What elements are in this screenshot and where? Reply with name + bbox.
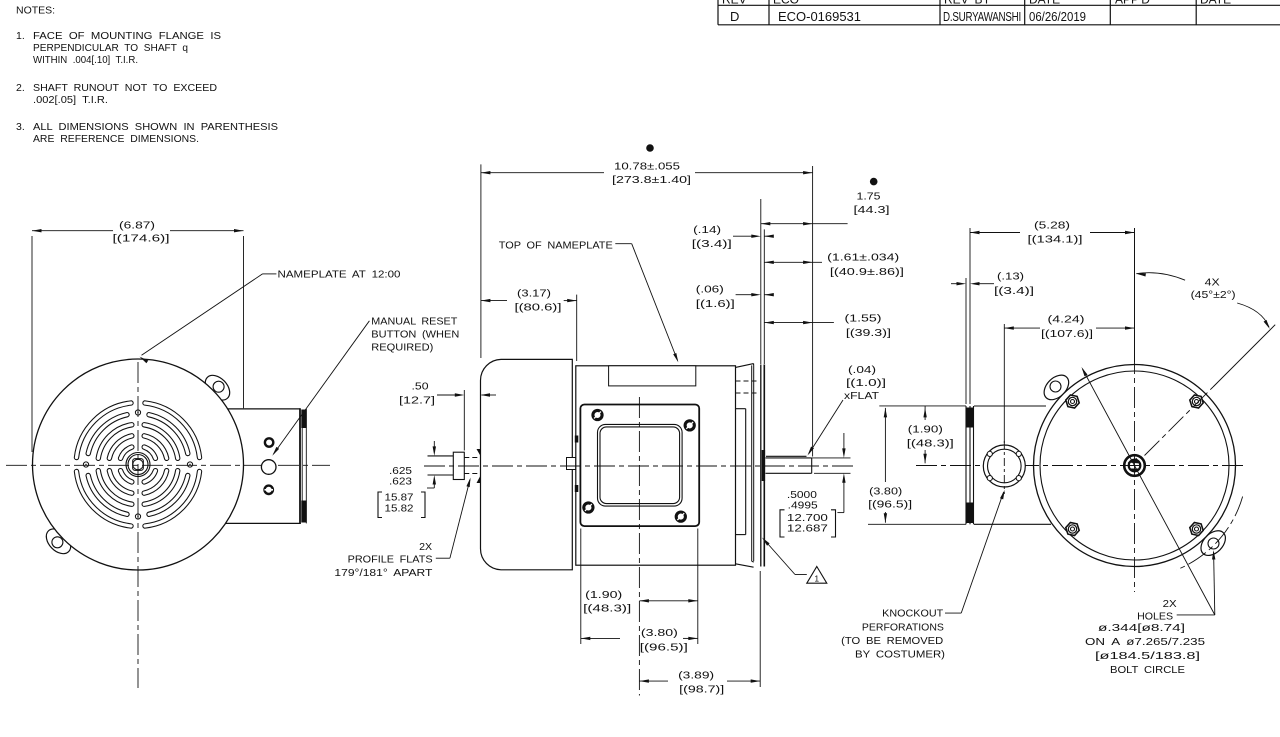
right view: conduit box top/bottom lines: [974, 405, 1046, 407]
svg-text:(1.61±.034): (1.61±.034): [827, 252, 899, 264]
dimension .5000/.4995 [12.700/12.687]: [780, 433, 851, 537]
svg-text:SHAFT RUNOUT NOT TO EXCEED: SHAFT RUNOUT NOT TO EXCEED: [33, 82, 217, 94]
middle view: flange bell profile: [736, 364, 760, 568]
leader: TOP OF NAMEPLATE: [499, 239, 679, 362]
svg-text:TOP OF NAMEPLATE: TOP OF NAMEPLATE: [499, 239, 613, 251]
middle view: box cover screws: [593, 410, 602, 419]
svg-text:[(174.6)]: [(174.6)]: [113, 233, 170, 245]
svg-text:[12.7]: [12.7]: [399, 395, 435, 407]
right view: flange outer circle: [1034, 365, 1236, 567]
right view: hex bolts 4X: [1066, 395, 1079, 408]
svg-text:PERFORATIONS: PERFORATIONS: [862, 622, 944, 634]
leader: (.04) [(1.0)] x FLAT: [808, 364, 887, 456]
svg-text:(1.55): (1.55): [845, 313, 882, 325]
svg-text:(4.24): (4.24): [1048, 314, 1085, 326]
svg-text:BOLT CIRCLE: BOLT CIRCLE: [1110, 664, 1185, 676]
svg-text:[(3.4)]: [(3.4)]: [692, 238, 732, 250]
left view: center hub and shaft: [126, 453, 150, 477]
svg-text:(3.80): (3.80): [869, 486, 902, 498]
svg-text:12.687: 12.687: [787, 522, 828, 534]
left view: slotted screw below button: [265, 486, 273, 494]
right view: 45 deg centerline ray: [1145, 387, 1214, 456]
svg-text:[273.8±1.40]: [273.8±1.40]: [612, 174, 691, 186]
middle view: motor body: [576, 366, 736, 565]
svg-text:[(48.3)]: [(48.3)]: [907, 438, 954, 450]
right view: centerline horizontal: [916, 465, 1247, 467]
svg-text:ECO-0169531: ECO-0169531: [778, 9, 861, 24]
svg-text:[(134.1)]: [(134.1)]: [1028, 234, 1083, 246]
svg-text:HOLES: HOLES: [1137, 611, 1173, 623]
left view: motor circle (fan cover): [33, 359, 244, 570]
left view: mounting ear bottom-left: [42, 524, 76, 558]
svg-text:(45°±2°): (45°±2°): [1191, 289, 1236, 301]
svg-text:[(39.3)]: [(39.3)]: [846, 327, 891, 339]
right view: ear hole bottom-right: [1208, 538, 1219, 549]
svg-text:(.14): (.14): [693, 224, 721, 236]
left view: conduit box right side: [300, 408, 307, 524]
left view: fan grille arc slots: [77, 403, 200, 526]
svg-text:NAMEPLATE AT 12:00: NAMEPLATE AT 12:00: [278, 268, 401, 280]
dimension 1.75 [44.3]: [761, 178, 890, 364]
svg-text:D: D: [730, 9, 739, 24]
leader: 2X PROFILE FLATS 179/181 APART: [334, 478, 470, 579]
svg-text:[(1.6)]: [(1.6)]: [696, 298, 735, 310]
right view dimension (3.80) [(96.5)] vertical: [868, 408, 966, 524]
right view: mounting ear top-left: [1039, 370, 1073, 404]
svg-text:BY COSTUMER): BY COSTUMER): [855, 649, 945, 661]
svg-text:2X: 2X: [1163, 598, 1177, 610]
svg-text:[(1.0)]: [(1.0)]: [846, 377, 886, 389]
middle view: box vertical centerline: [638, 397, 640, 696]
svg-text:1.75: 1.75: [857, 191, 881, 203]
svg-text:FACE OF MOUNTING FLANGE IS: FACE OF MOUNTING FLANGE IS: [33, 30, 221, 42]
svg-text:(3.80): (3.80): [641, 627, 678, 639]
right view: flange inner circle: [1040, 371, 1229, 560]
right view: bolt circle centerline arc: [1177, 497, 1243, 570]
svg-text:BUTTON (WHEN: BUTTON (WHEN: [371, 329, 459, 341]
middle view: horizontal centerline: [424, 465, 856, 467]
right view: centerline vertical: [1134, 228, 1136, 353]
svg-text:KNOCKOUT: KNOCKOUT: [882, 608, 944, 620]
svg-text:xFLAT: xFLAT: [844, 390, 880, 402]
left view: conduit box behind circle: [222, 409, 300, 524]
right view: knockout circle: [983, 441, 1025, 494]
right view dimension (1.90) [(48.3)] vertical: [879, 406, 966, 463]
svg-text:[(107.6)]: [(107.6)]: [1041, 328, 1093, 340]
leader: MANUAL RESET BUTTON (WHEN REQUIRED): [272, 316, 459, 456]
svg-text:15.82: 15.82: [385, 503, 414, 515]
leader: 2X HOLES with both hole leaders: [1082, 367, 1216, 623]
left view: centerline vertical: [137, 362, 139, 688]
notes text block: [16, 5, 278, 146]
left view: mounting ear top-right: [201, 371, 235, 405]
dimension (3.17) [(80.6)]: [481, 288, 577, 362]
svg-text:(3.17): (3.17): [517, 288, 551, 300]
svg-text:(TO BE REMOVED: (TO BE REMOVED: [841, 635, 943, 647]
left view: pilot light hole: [265, 438, 273, 446]
middle view: left shaft with profile flats: [428, 449, 481, 483]
leader: NAMEPLATE AT 12:00: [140, 268, 401, 363]
middle view: terminal box cover: [580, 405, 699, 527]
right view: mounting ear bottom-right: [1196, 526, 1230, 560]
svg-text:ARE REFERENCE DIMENSIONS.: ARE REFERENCE DIMENSIONS.: [33, 133, 199, 145]
left view: grille screws N E S W: [135, 410, 140, 415]
svg-text:179°/181° APART: 179°/181° APART: [334, 567, 433, 579]
svg-text:D.SURYAWANSHI: D.SURYAWANSHI: [943, 9, 1021, 24]
leader: KNOCKOUT PERFORATIONS text: [841, 490, 1004, 661]
svg-text:WITHIN .004[.10] T.I.R.: WITHIN .004[.10] T.I.R.: [33, 54, 138, 66]
svg-text:[ø184.5/183.8]: [ø184.5/183.8]: [1095, 650, 1200, 662]
dimension (3.89) [(98.7)] bottom: [639, 571, 760, 696]
svg-text:2X: 2X: [419, 541, 432, 553]
left view: manual reset button: [261, 460, 276, 475]
dimension (1.90) [(48.3)] bottom: [581, 529, 698, 645]
right view: center shaft hub: [1124, 455, 1145, 476]
svg-text:2.: 2.: [16, 82, 25, 94]
svg-text:[44.3]: [44.3]: [854, 204, 890, 216]
svg-text:PERPENDICULAR TO SHAFT q: PERPENDICULAR TO SHAFT q: [33, 42, 188, 54]
svg-text:MANUAL RESET: MANUAL RESET: [371, 316, 458, 328]
right view: ear hole top-left: [1050, 381, 1061, 392]
svg-text:.4995: .4995: [788, 500, 818, 512]
right view dimension 4X (45±2) angle: [1136, 273, 1270, 329]
dimension .50 [12.7]: [399, 381, 496, 451]
middle view: right shaft with flat: [766, 456, 812, 473]
svg-text:REQUIRED): REQUIRED): [371, 342, 433, 354]
svg-text:(6.87): (6.87): [119, 219, 155, 231]
svg-text:(3.89): (3.89): [678, 670, 714, 682]
dimension (1.61±.034) [(40.9±.86)]: [764, 252, 904, 278]
svg-text:PROFILE FLATS: PROFILE FLATS: [348, 553, 433, 565]
right view dimension (4.24) [(107.6)]: [1004, 314, 1134, 444]
svg-text:1.: 1.: [16, 30, 25, 42]
svg-text:06/26/2019: 06/26/2019: [1029, 9, 1086, 24]
svg-text:.623: .623: [389, 476, 412, 488]
flag note triangle 1 with leader: [762, 538, 827, 584]
dimension (3.80) [(96.5)] bottom: [581, 627, 698, 653]
svg-text:[(98.7)]: [(98.7)]: [679, 684, 724, 696]
svg-text:(.04): (.04): [848, 364, 876, 376]
left view dimension (6.87)[(174.6)]: [32, 219, 244, 452]
middle view: shaft hub stub at seam: [567, 458, 576, 470]
dimension (1.55) [(39.3)]: [764, 313, 891, 340]
svg-text:[(96.5)]: [(96.5)]: [640, 641, 688, 653]
svg-text:(1.90): (1.90): [908, 424, 943, 436]
svg-text:NOTES:: NOTES:: [16, 5, 55, 17]
svg-text:ø.344[ø8.74]: ø.344[ø8.74]: [1098, 622, 1185, 634]
dimension (.06) [(1.6)]: [696, 284, 774, 311]
svg-text:ALL DIMENSIONS SHOWN IN PARENT: ALL DIMENSIONS SHOWN IN PARENTHESIS: [33, 121, 278, 133]
middle view: box inner rounded square: [598, 424, 683, 506]
right view dimension (5.28) [(134.1)]: [970, 220, 1135, 405]
dimension 10.78±.055 [273.8±1.40]: [481, 144, 813, 456]
svg-text:(5.28): (5.28): [1034, 220, 1070, 232]
svg-text:[(96.5)]: [(96.5)]: [868, 499, 912, 511]
revision table: [718, 0, 1280, 25]
left view: ear hole top-right: [213, 381, 224, 392]
svg-text:[(40.9±.86)]: [(40.9±.86)]: [830, 266, 904, 278]
svg-text:[(80.6)]: [(80.6)]: [515, 302, 562, 314]
svg-text:(.06): (.06): [696, 284, 724, 296]
middle view: flange plate edge-on: [752, 365, 765, 567]
svg-text:(.13): (.13): [997, 271, 1024, 283]
svg-text:3.: 3.: [16, 121, 25, 133]
dimension (.14) [(3.4)]: [692, 224, 774, 250]
text: hole size and bolt circle spec: [1085, 622, 1205, 676]
svg-text:ON A ø7.265/7.235: ON A ø7.265/7.235: [1085, 636, 1205, 648]
middle view: seam clips: [575, 436, 579, 443]
right view dimension (.13) [(3.4)]: [951, 271, 1034, 405]
middle view: fan shroud (rounded left): [481, 359, 573, 569]
svg-text:[(48.3)]: [(48.3)]: [583, 603, 631, 615]
svg-text:[(3.4)]: [(3.4)]: [994, 285, 1034, 297]
svg-text:10.78±.055: 10.78±.055: [614, 161, 680, 173]
left view: ear hole bottom-left: [52, 537, 63, 548]
svg-text:.002[.05] T.I.R.: .002[.05] T.I.R.: [33, 94, 108, 106]
svg-text:.50: .50: [412, 381, 429, 393]
right view: conduit box plate edge-on: [966, 406, 975, 524]
middle view: nameplate edge on top: [609, 366, 696, 386]
svg-text:(1.90): (1.90): [585, 589, 622, 601]
svg-text:1: 1: [814, 574, 819, 584]
left view: centerline horizontal: [6, 464, 330, 466]
dimension .625/.623 [15.87/15.82]: [378, 441, 436, 518]
svg-text:4X: 4X: [1205, 277, 1220, 289]
